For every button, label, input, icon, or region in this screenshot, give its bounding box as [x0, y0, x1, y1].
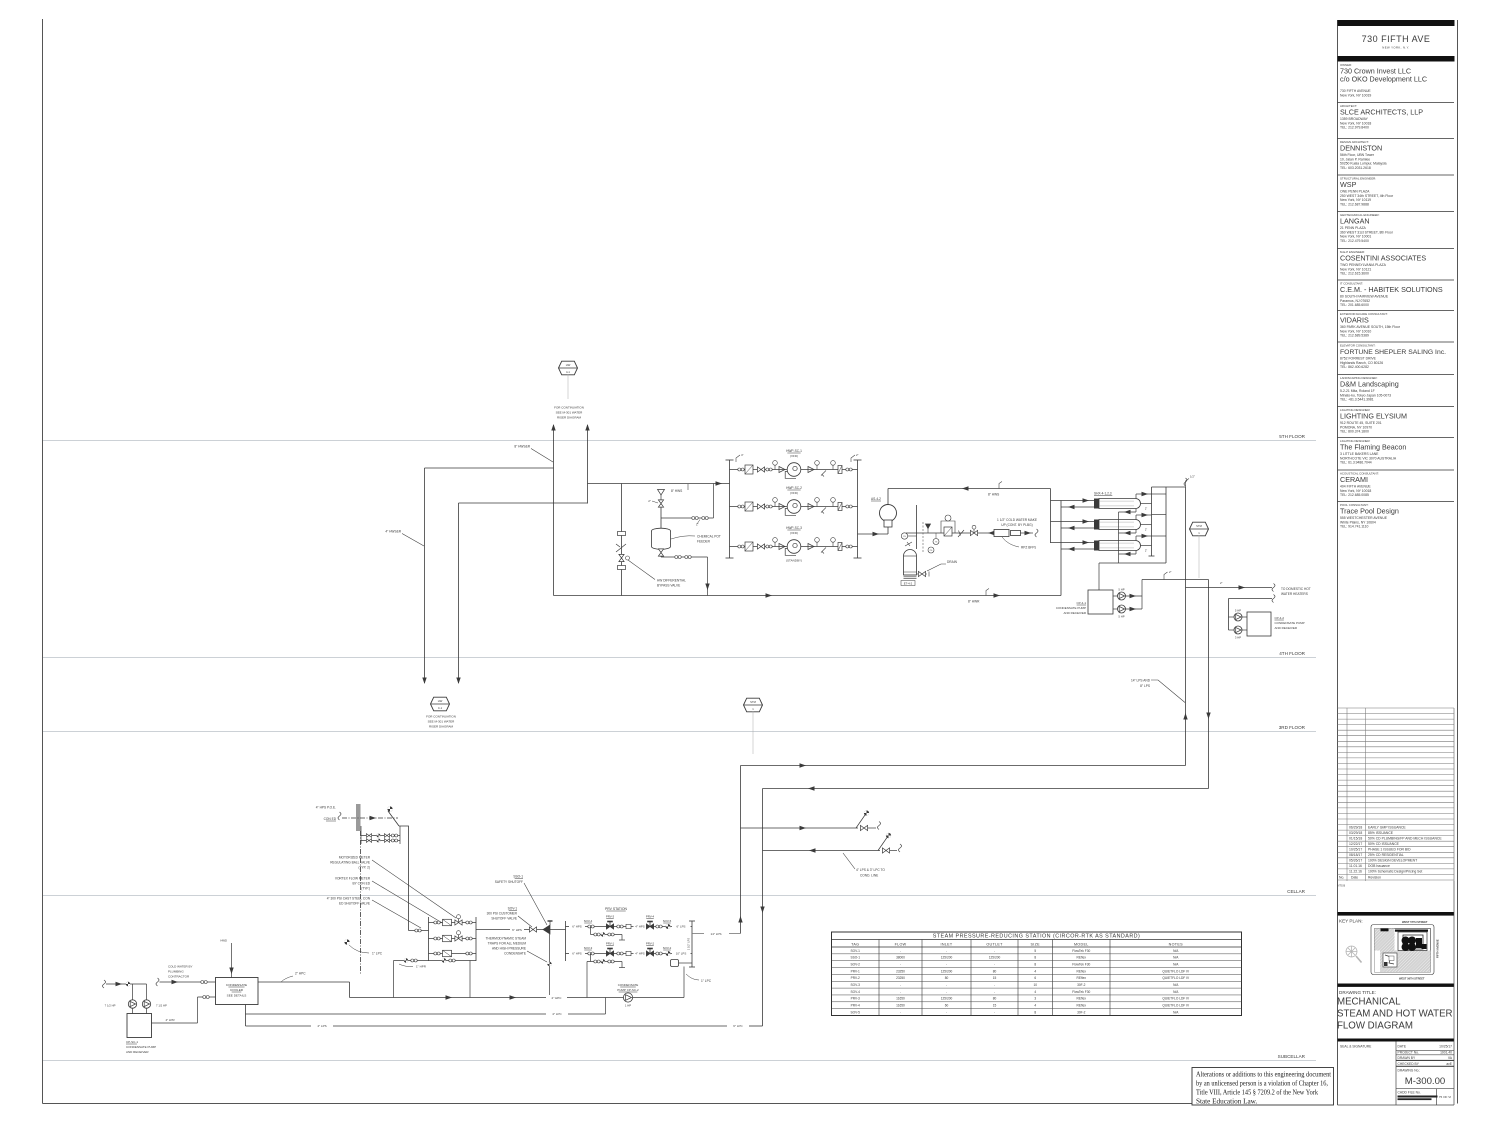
HWS distribution header — [1050, 489, 1052, 544]
svg-text:MECHANICAL: MECHANICAL — [1337, 997, 1401, 1008]
condensate collection L — [1099, 562, 1166, 564]
outlet pipe 14in LPS to riser — [692, 933, 704, 935]
svg-text:SEAL & SIGNATURE: SEAL & SIGNATURE — [1340, 1045, 1372, 1049]
CP-SC-1 pump b — [142, 1000, 150, 1008]
svg-text:QUIETFLO LDF IV: QUIETFLO LDF IV — [1162, 969, 1190, 973]
svg-text:8752 FORREST DRIVE: 8752 FORREST DRIVE — [1340, 356, 1377, 360]
svg-text:NOTES: NOTES — [1169, 942, 1183, 946]
feeder drain valve — [660, 550, 662, 557]
elbow flag 2in — [851, 455, 855, 462]
svg-text:(TYP. 2): (TYP. 2) — [359, 866, 370, 870]
svg-text:TAG: TAG — [851, 942, 859, 946]
CP-4-1 pump b — [1113, 608, 1118, 610]
svg-text:SEE M-301 WATER: SEE M-301 WATER — [556, 411, 584, 415]
svg-text:LANGAN: LANGAN — [1340, 216, 1370, 225]
condensate riser to cellar — [762, 789, 764, 1027]
svg-text:38000: 38000 — [896, 956, 905, 960]
svg-text:THERMODYNAMIC STEAM: THERMODYNAMIC STEAM — [486, 937, 527, 941]
svg-text:PRV-1: PRV-1 — [851, 969, 860, 973]
label ET-4-2 — [901, 581, 915, 586]
CP-SC-1 discharge pipe 4in LPR — [197, 997, 199, 1023]
svg-text:STM: STM — [750, 700, 756, 704]
svg-text:CADD FILE No.: CADD FILE No. — [1398, 1091, 1421, 1095]
svg-text:WEST 56TH STREET: WEST 56TH STREET — [1399, 977, 1425, 981]
svg-text:Title VIII, Article 145 § 7209: Title VIII, Article 145 § 7209.2 of the … — [1196, 1089, 1318, 1097]
service ball valve — [387, 806, 392, 811]
titleblock section DESIGN ARCHITECT: — [1338, 139, 1455, 171]
svg-text:ET-4-2: ET-4-2 — [904, 582, 913, 586]
svg-text:FlowTek F30: FlowTek F30 — [1072, 962, 1090, 966]
manifold bypass run — [429, 953, 477, 955]
svg-text:COOLER: COOLER — [230, 988, 244, 992]
svg-text:REflex: REflex — [1077, 969, 1087, 973]
svg-text:COND. LINE: COND. LINE — [860, 874, 878, 878]
CP-SC-1 pump a — [128, 1000, 136, 1008]
svg-text:HW: HW — [438, 699, 443, 703]
svg-text:AND RECEIVER: AND RECEIVER — [1063, 611, 1086, 615]
feeder drain line — [661, 556, 708, 558]
svg-text:FEEDER: FEEDER — [697, 540, 711, 544]
HX steam inlet 2 — [1135, 515, 1137, 520]
svg-text:EARLY GMP ISSUANCE: EARLY GMP ISSUANCE — [1368, 825, 1406, 829]
HX condensate outlet 1 — [1135, 509, 1137, 513]
svg-text:50250 Kuala Lumpur, Malaysia: 50250 Kuala Lumpur, Malaysia — [1340, 162, 1387, 166]
titleblock section EXTERIOR FACADE CONSULTANT: — [1338, 311, 1455, 338]
SOV-1 customer shutoff — [529, 927, 536, 932]
HWR collection header — [1060, 501, 1062, 596]
svg-text:05/26/17: 05/26/17 — [1349, 859, 1362, 863]
svg-text:UP (CONT. BY PLBG): UP (CONT. BY PLBG) — [1001, 523, 1032, 527]
heat exchanger SHX-4-2 — [1094, 520, 1099, 530]
svg-text:FIFTH AVENUE: FIFTH AVENUE — [1436, 939, 1440, 958]
riser 8in HWS — [553, 425, 555, 596]
svg-text:DOB Issuance: DOB Issuance — [1368, 864, 1390, 868]
svg-text:PRV STATION: PRV STATION — [605, 907, 628, 911]
pump HWP-SC-2 — [787, 500, 801, 514]
svg-text:(STANDBY): (STANDBY) — [786, 559, 802, 563]
warmup bypass bottom — [590, 954, 592, 962]
control valve PRV-3 — [606, 924, 613, 929]
HX return stub 1 — [1061, 506, 1094, 508]
svg-text:State Education Law.: State Education Law. — [1196, 1098, 1257, 1106]
svg-text:STEAM AND HOT WATER: STEAM AND HOT WATER — [1337, 1009, 1453, 1020]
svg-text:QUIETFLO LDF IV: QUIETFLO LDF IV — [1162, 1004, 1190, 1008]
drawing title — [1337, 984, 1454, 1042]
branch LPC takeoff — [763, 850, 881, 852]
svg-text:MOTORIZED METER: MOTORIZED METER — [339, 856, 371, 860]
svg-text:-: - — [900, 990, 901, 994]
svg-text:INLET: INLET — [941, 942, 953, 946]
svg-text:PRV-2: PRV-2 — [646, 942, 655, 946]
pump suction header — [729, 460, 731, 558]
pump HWP-SC-3 — [787, 540, 801, 554]
hexagon flag STM 1 (4th fl) — [1190, 522, 1209, 536]
silencer drain pipe — [683, 967, 685, 998]
heat exchanger SHX-4-1 — [1094, 499, 1099, 509]
engineering note box — [1192, 1068, 1334, 1106]
svg-text:ONE PENN PLAZA: ONE PENN PLAZA — [1340, 189, 1370, 193]
svg-text:TEL: 201.685.6000: TEL: 201.685.6000 — [1340, 303, 1369, 307]
svg-text:QUIETFLO LDF IV: QUIETFLO LDF IV — [1162, 976, 1190, 980]
meter manifold feed — [409, 930, 429, 932]
svg-text:5 HP: 5 HP — [1118, 615, 1124, 619]
HX condensate outlet 3 — [1135, 551, 1137, 555]
svg-text:4" LPS: 4" LPS — [317, 1024, 326, 1028]
svg-text:14" LPS AND: 14" LPS AND — [1131, 679, 1151, 683]
wire flag leader — [567, 375, 569, 400]
svg-text:(VFD): (VFD) — [790, 491, 798, 495]
CP-4-1 discharge riser — [1141, 580, 1143, 610]
svg-text:TRAPS FOR ALL MEDIUM: TRAPS FOR ALL MEDIUM — [488, 942, 527, 946]
svg-text:6" HPS: 6" HPS — [512, 928, 522, 932]
PRV inlet header — [565, 921, 567, 961]
supply main 8in HWS — [888, 488, 1051, 490]
svg-text:4: 4 — [1034, 1004, 1036, 1008]
svg-text:4: 4 — [1034, 969, 1036, 973]
svg-text:6" LPC: 6" LPC — [733, 1024, 743, 1028]
svg-text:FlowTek F30: FlowTek F30 — [1072, 990, 1090, 994]
union b — [618, 566, 626, 570]
svg-text:OUTLET: OUTLET — [986, 942, 1003, 946]
svg-text:23250: 23250 — [896, 969, 905, 973]
titleblock section ARCHITECT: — [1338, 103, 1455, 130]
svg-text:Date: Date — [1351, 875, 1358, 879]
svg-text:-: - — [994, 1010, 995, 1014]
drip leg from bypass — [586, 962, 588, 998]
svg-text:NEW YORK, N.Y.: NEW YORK, N.Y. — [1382, 46, 1409, 50]
svg-text:Paramus, NJ 07652: Paramus, NJ 07652 — [1340, 299, 1370, 303]
wire fill drop — [713, 484, 715, 519]
svg-text:D&M Landscaping: D&M Landscaping — [1340, 379, 1399, 388]
svg-text:-: - — [946, 983, 947, 987]
union a — [618, 532, 626, 536]
svg-text:HWP-SC-2: HWP-SC-2 — [786, 486, 802, 490]
pump HWP-SC-1 — [787, 463, 801, 477]
svg-text:-: - — [900, 1010, 901, 1014]
elbow flag 4in — [736, 455, 740, 462]
svg-text:10/25/17: 10/25/17 — [1439, 1045, 1452, 1049]
svg-text:REflex: REflex — [1077, 1004, 1087, 1008]
expansion tank ET-4-2 — [904, 550, 917, 575]
svg-text:555 WESTCHESTER AVENUE: 555 WESTCHESTER AVENUE — [1340, 516, 1388, 520]
svg-text:(VFD): (VFD) — [790, 454, 798, 458]
svg-text:125/200: 125/200 — [941, 956, 953, 960]
collector stubs — [1152, 493, 1167, 495]
fittings on HWP-SC-2 discharge — [808, 504, 814, 510]
PRV bridge — [941, 521, 955, 533]
drop to LPC line — [605, 998, 607, 1015]
svg-text:2": 2" — [1145, 528, 1147, 532]
svg-text:4" LPS & 3" LPC TO: 4" LPS & 3" LPC TO — [856, 868, 885, 872]
revision table — [1338, 708, 1455, 881]
svg-text:SOV-2: SOV-2 — [851, 962, 861, 966]
svg-text:HWP-SC-1: HWP-SC-1 — [786, 449, 802, 453]
svg-text:1359 BROADWAY: 1359 BROADWAY — [1340, 117, 1369, 121]
wire HWR to riser — [459, 502, 588, 504]
svg-text:New York, NY 10001: New York, NY 10001 — [1340, 235, 1371, 239]
svg-text:4TH FLOOR: 4TH FLOOR — [1279, 651, 1305, 656]
svg-text:3 HP: 3 HP — [1235, 636, 1241, 640]
svg-text:CONDENSATE PUMP: CONDENSATE PUMP — [1056, 606, 1086, 610]
svg-text:8" HWS: 8" HWS — [671, 489, 682, 493]
makeup relief valve — [926, 524, 931, 529]
check valves — [958, 530, 964, 537]
wire drain drop — [707, 557, 709, 596]
condensate drop from HXs — [1118, 512, 1120, 563]
svg-text:SOV-3: SOV-3 — [851, 983, 861, 987]
svg-text:ELEVATOR CONSULTANT:: ELEVATOR CONSULTANT: — [1340, 344, 1376, 348]
svg-text:New York, NY 10018: New York, NY 10018 — [1340, 489, 1371, 493]
svg-text:FlowTek F30: FlowTek F30 — [1072, 949, 1090, 953]
svg-text:LIGHTING ELYSIUM: LIGHTING ELYSIUM — [1340, 411, 1407, 420]
trap drip leg — [549, 934, 551, 998]
svg-text:FOR CONTINUATION: FOR CONTINUATION — [426, 715, 456, 719]
HX steam inlet 3 — [1135, 536, 1137, 541]
svg-text:QUIETFLO LDF IV: QUIETFLO LDF IV — [1162, 997, 1190, 1001]
hexagon flag HW C-1 — [431, 697, 450, 711]
svg-text:CHECKED BY: CHECKED BY — [1398, 1062, 1420, 1066]
svg-text:WATER HEATERS: WATER HEATERS — [1281, 592, 1308, 596]
svg-text:1 HP: 1 HP — [625, 1004, 631, 1008]
svg-text:8: 8 — [1034, 962, 1036, 966]
svg-text:6" HPS: 6" HPS — [572, 952, 581, 956]
svg-text:8: 8 — [1034, 1010, 1036, 1014]
svg-text:CP-4-2: CP-4-2 — [1275, 616, 1285, 620]
feeder fill line w/ checks 1in — [661, 517, 714, 519]
svg-text:REGULATING BALL VALVE: REGULATING BALL VALVE — [330, 861, 370, 865]
svg-text:C.E.M. - HABITEK SOLUTIONS: C.E.M. - HABITEK SOLUTIONS — [1340, 285, 1443, 294]
fittings on HWP-SC-1 discharge — [808, 467, 814, 473]
valve SOV-3 — [588, 952, 591, 955]
svg-text:CONDENSATE PUMP: CONDENSATE PUMP — [1275, 621, 1305, 625]
titleblock section POOL CONSULTANT: — [1338, 502, 1455, 529]
svg-text:08/18/17: 08/18/17 — [1349, 853, 1362, 857]
svg-text:06/29/18: 06/29/18 — [1349, 825, 1362, 829]
titleblock section LANDSCAPING DESIGNER: — [1338, 375, 1455, 402]
svg-text:New York, NY 10010: New York, NY 10010 — [1340, 329, 1371, 333]
svg-text:25% CD RESIDENTIAL: 25% CD RESIDENTIAL — [1368, 853, 1404, 857]
svg-text:CERAMI: CERAMI — [1340, 475, 1368, 484]
svg-text:3 LITTLE BAKERS LANE: 3 LITTLE BAKERS LANE — [1340, 452, 1379, 456]
svg-text:300 PSI CUSTOMER: 300 PSI CUSTOMER — [487, 912, 518, 916]
svg-text:1/2": 1/2" — [1190, 475, 1195, 479]
svg-text:50% CD PLUMBING/FP AND MECH IS: 50% CD PLUMBING/FP AND MECH ISSUANCE — [1368, 836, 1442, 840]
svg-text:75 OF VI: 75 OF VI — [1439, 1095, 1452, 1099]
make-up water line — [906, 532, 994, 534]
svg-text:TEL: 212.687.9888: TEL: 212.687.9888 — [1340, 203, 1369, 207]
svg-text:DRAWN BY: DRAWN BY — [1398, 1056, 1416, 1060]
customer pipe 6in HPS — [476, 929, 510, 931]
svg-text:21 PENN PLAZA: 21 PENN PLAZA — [1340, 226, 1367, 230]
PRV path pipe y=953.5 — [566, 953, 570, 955]
svg-text:CONDENSATE: CONDENSATE — [618, 983, 639, 987]
svg-text:80: 80 — [993, 969, 997, 973]
svg-text:PRV-4: PRV-4 — [851, 1004, 860, 1008]
svg-text:New York, NY 10018: New York, NY 10018 — [1340, 121, 1371, 125]
svg-text:STEAM PRESSURE-REDUCING STATIO: STEAM PRESSURE-REDUCING STATION (CIRCOR-… — [933, 934, 1141, 940]
svg-text:SOV-2: SOV-2 — [663, 946, 672, 950]
svg-text:HW DIFFERENTIAL: HW DIFFERENTIAL — [657, 579, 686, 583]
manifold metered run y=938.5 — [429, 938, 477, 940]
svg-text:4" 300 PSI CAST STEEL CON: 4" 300 PSI CAST STEEL CON — [327, 897, 371, 901]
svg-text:PRV-4: PRV-4 — [646, 915, 655, 919]
svg-text:DRAIN: DRAIN — [947, 560, 958, 564]
vent flag 1/2in — [1186, 479, 1190, 488]
wire to pot feeder — [660, 507, 662, 529]
svg-text:PRV-3: PRV-3 — [851, 997, 860, 1001]
svg-text:BYPASS VALVE: BYPASS VALVE — [657, 584, 680, 588]
main return pipe 8in HWR — [554, 595, 1062, 597]
fittings on HWP-SC-3 suction — [738, 545, 741, 548]
svg-text:2": 2" — [648, 499, 651, 503]
svg-text:11.22.16: 11.22.16 — [1349, 870, 1362, 874]
svg-text:1 1/2" LPS: 1 1/2" LPS — [687, 938, 691, 951]
branch LPS takeoff — [741, 827, 859, 829]
svg-text:404 FIFTH AVENUE: 404 FIFTH AVENUE — [1340, 484, 1371, 488]
svg-text:2" HPC: 2" HPC — [552, 996, 563, 1000]
svg-text:8" HWR: 8" HWR — [968, 600, 980, 604]
HW differential bypass pipe — [621, 484, 623, 596]
svg-text:360 PARK AVENUE SOUTH, 15th Fl: 360 PARK AVENUE SOUTH, 15th Floor — [1340, 325, 1401, 329]
svg-text:ED SHUTOFF VALVE: ED SHUTOFF VALVE — [339, 902, 370, 906]
steam riser to cellar — [740, 766, 742, 934]
svg-text:3: 3 — [1034, 997, 1036, 1001]
svg-text:SHUTOFF VALVE: SHUTOFF VALVE — [491, 917, 517, 921]
PRV outlet header — [691, 921, 693, 967]
svg-text:11650: 11650 — [896, 997, 905, 1001]
svg-text:TEL: 862.400.6282: TEL: 862.400.6282 — [1340, 365, 1369, 369]
svg-text:4" LPR: 4" LPR — [165, 1018, 174, 1022]
svg-text:SAFETY SHUTOFF: SAFETY SHUTOFF — [495, 880, 523, 884]
svg-text:HWP-SC-3: HWP-SC-3 — [786, 526, 802, 530]
CP-4-2 pump a — [1229, 616, 1235, 618]
svg-text:TO DOMESTIC HOT: TO DOMESTIC HOT — [1281, 587, 1311, 591]
svg-text:10" LPS: 10" LPS — [676, 952, 687, 956]
ET-4-2 feed pipe — [916, 505, 918, 549]
svg-text:-: - — [946, 1010, 947, 1014]
shutoff w/ wheel — [970, 530, 977, 535]
svg-text:50% CD ISSUANCE: 50% CD ISSUANCE — [1368, 842, 1400, 846]
svg-text:4-1: 4-1 — [566, 370, 570, 374]
key plan — [1338, 912, 1500, 981]
svg-text:The Flaming Beacon: The Flaming Beacon — [1340, 442, 1406, 451]
pipe to domestic hot water heaters — [1186, 587, 1273, 589]
titleblock section M-E-P ENGINEER: — [1338, 249, 1455, 276]
cooler outlet pipe — [258, 981, 350, 983]
svg-text:N/A: N/A — [1173, 990, 1179, 994]
CP-SC-1 suction pipe — [103, 980, 106, 988]
control valve PRV-4 — [646, 924, 653, 929]
HX right conn 1 — [1141, 503, 1152, 505]
gauges TG/PG on makeup — [933, 539, 939, 545]
svg-text:360 WEST 31st STREET, 8th Floo: 360 WEST 31st STREET, 8th Floor — [1340, 230, 1394, 234]
titleblock section OWNER: — [1340, 63, 1427, 97]
svg-text:New York, NY 10019: New York, NY 10019 — [1340, 94, 1371, 98]
svg-text:7 1/2 HP: 7 1/2 HP — [105, 1004, 116, 1008]
svg-text:PUMP CP-SC-2: PUMP CP-SC-2 — [617, 988, 639, 992]
fittings on HWP-SC-1 suction — [738, 468, 741, 471]
meter headers — [360, 832, 362, 844]
svg-text:KEY PLAN:: KEY PLAN: — [1339, 919, 1363, 924]
svg-text:Highlands Ranch, CO 80126: Highlands Ranch, CO 80126 — [1340, 361, 1383, 365]
svg-text:FLOW: FLOW — [895, 942, 907, 946]
svg-text:TEL: 603.2031.2618: TEL: 603.2031.2618 — [1340, 166, 1371, 170]
svg-text:TEL: +81.3.5441.3981: TEL: +81.3.5441.3981 — [1340, 398, 1374, 402]
svg-text:PLUMBING: PLUMBING — [168, 970, 184, 974]
HX supply stub 3 — [1051, 542, 1095, 544]
svg-text:VIDARIS: VIDARIS — [1340, 315, 1369, 324]
svg-text:3RD FLOOR: 3RD FLOOR — [1279, 725, 1306, 730]
svg-text:8" LPS: 8" LPS — [1140, 684, 1150, 688]
svg-text:03/29/18: 03/29/18 — [1349, 831, 1362, 835]
svg-text:14" LPS: 14" LPS — [711, 932, 722, 936]
pump branch HWP-SC-2 pipe — [730, 506, 858, 508]
svg-text:N/A: N/A — [1173, 1010, 1179, 1014]
svg-text:2": 2" — [1145, 549, 1147, 553]
svg-text:4: 4 — [1034, 990, 1036, 994]
svg-text:125/200: 125/200 — [989, 956, 1001, 960]
svg-text:N/A: N/A — [1173, 962, 1179, 966]
titleblock section LIGHTING DESIGNER: — [1338, 407, 1455, 434]
svg-text:SIZE: SIZE — [1031, 942, 1041, 946]
pump branch HWP-SC-3 pipe — [730, 546, 858, 548]
svg-text:5 HP: 5 HP — [1118, 588, 1124, 592]
svg-text:No.: No. — [1339, 875, 1344, 879]
svg-text:11650: 11650 — [896, 1004, 905, 1008]
cooler bottom drops — [245, 1005, 247, 1027]
service entrance line — [342, 817, 398, 819]
con ed wall sleeve — [356, 804, 361, 831]
svg-text:MODEL: MODEL — [1074, 942, 1089, 946]
chemical pot feeder — [652, 528, 671, 534]
svg-text:CON ED: CON ED — [324, 817, 337, 821]
cooler second stub — [198, 996, 216, 998]
svg-text:7 1/2 HP: 7 1/2 HP — [156, 1004, 167, 1008]
svg-text:CONTRACTOR: CONTRACTOR — [168, 975, 190, 979]
svg-text:SOV-4: SOV-4 — [584, 919, 593, 923]
bottom info grid — [1338, 881, 1455, 1105]
pump discharge header — [857, 460, 859, 558]
svg-text:AS-4-2: AS-4-2 — [871, 497, 881, 501]
svg-text:8: 8 — [1034, 956, 1036, 960]
svg-text:912 ROUTE 45, SUITE 201: 912 ROUTE 45, SUITE 201 — [1340, 421, 1382, 425]
HX right conn 2 — [1141, 524, 1152, 526]
vent silencer — [671, 960, 679, 967]
svg-text:Revision: Revision — [1368, 875, 1381, 879]
manifold metered run y=922.5 — [429, 922, 477, 924]
svg-text:FORTUNE SHEPLER SALING Inc.: FORTUNE SHEPLER SALING Inc. — [1340, 349, 1446, 356]
svg-text:TEL: 212.979.8400: TEL: 212.979.8400 — [1340, 126, 1369, 130]
svg-text:TWO PENNSYLVANIA PLAZA: TWO PENNSYLVANIA PLAZA — [1340, 263, 1387, 267]
meter bypass pipe 1in HPR — [394, 960, 477, 962]
steam top pipe — [1152, 486, 1186, 488]
svg-text:80 SOUTH FAIRVIEW AVENUE: 80 SOUTH FAIRVIEW AVENUE — [1340, 294, 1389, 298]
svg-text:80: 80 — [993, 997, 997, 1001]
steam collector b — [1165, 487, 1167, 563]
subcellar line 4in LPC — [246, 1013, 547, 1015]
gauge PG — [908, 535, 917, 537]
svg-text:by an unlicensed person is a v: by an unlicensed person is a violation o… — [1196, 1080, 1328, 1088]
meter manifold headers — [428, 917, 430, 961]
table rows — [832, 953, 1242, 955]
svg-text:125/200: 125/200 — [941, 997, 953, 1001]
separator outlet pipe — [887, 489, 889, 505]
svg-text:15: 15 — [993, 1004, 997, 1008]
svg-text:(TYP.): (TYP.) — [361, 887, 370, 891]
svg-text:RPZ BFPs: RPZ BFPs — [1021, 546, 1036, 550]
svg-text:-: - — [994, 949, 995, 953]
hexagon flag HW 4-1 — [559, 361, 578, 375]
